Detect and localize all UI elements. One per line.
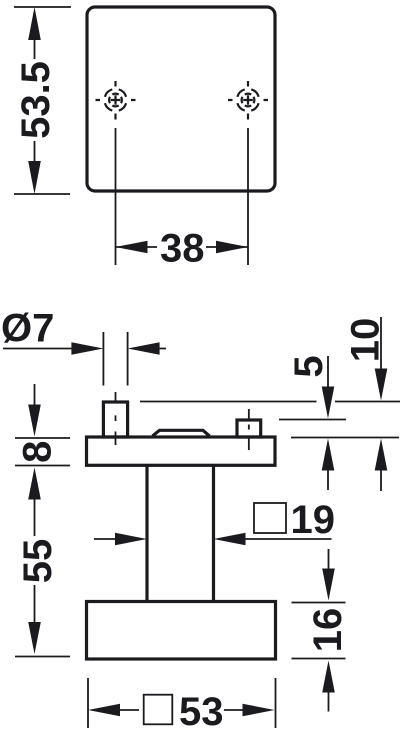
dimension 8 arrow down: [28, 405, 41, 437]
dimension 53 arrow pointing right: [243, 704, 275, 717]
dimension 19 arrow pointing left: [214, 533, 246, 546]
dimension 5 arrow up: [322, 439, 335, 471]
dimension 16 upper line: [328, 549, 330, 570]
dimension 16 arrow down: [322, 569, 335, 601]
dimension 53 left line: [119, 709, 139, 711]
dimension 53.5 extension line top: [14, 6, 71, 8]
svg-text:38: 38: [160, 226, 205, 270]
dimension 38 line segments: [116, 246, 249, 248]
dimension 53.5 extension line bottom: [14, 193, 70, 195]
svg-text:16: 16: [306, 608, 350, 653]
dimension 19 square symbol: [254, 503, 286, 533]
extension line C (flange top): [291, 437, 399, 439]
dimension 53.5 line segments: [34, 39, 36, 162]
flange plate (side view): [87, 437, 276, 465]
svg-text:5: 5: [287, 355, 331, 377]
dimension 53.5 arrow up: [28, 7, 41, 40]
dimension 38 arrow left: [116, 241, 148, 254]
dimension 55 arrow down: [28, 622, 41, 654]
dimension 19 arrow pointing right: [115, 533, 147, 546]
dimension 16 extension line top: [292, 602, 346, 604]
stud S2 (5 mm): [237, 409, 261, 450]
extension line A (top of stud S1): [140, 401, 400, 403]
dimension 5 lower line: [327, 469, 329, 490]
dimension 8 extension line bottom: [15, 465, 70, 467]
dimension d7 arrow pointing right: [71, 342, 103, 355]
svg-text:19: 19: [291, 498, 336, 542]
dimension 10 arrow up: [375, 439, 388, 471]
hole symbol H2: [228, 81, 268, 120]
svg-text:53: 53: [179, 690, 224, 730]
dimension 55 extension line bottom: [15, 656, 70, 658]
plate outline (top view rounded square): [87, 7, 275, 191]
dimension 38 extension line right: [247, 128, 249, 265]
dimension d7 arrow pointing left: [128, 342, 160, 355]
dimension 5 upper line: [327, 356, 329, 388]
dimension 53 arrow pointing left: [88, 704, 120, 717]
dimension 19 right line: [244, 538, 332, 540]
dimension 53 right line: [224, 709, 244, 711]
dimension d7 line segments: [3, 348, 166, 350]
dimension 38 extension line left: [115, 128, 117, 265]
dimension 10 lower line: [380, 469, 382, 491]
dimension 38 arrow right: [216, 241, 248, 254]
dimension 55 lower line: [34, 585, 36, 624]
stem right edge: [212, 465, 215, 601]
dimension 8 extension line top: [15, 437, 70, 439]
dimension 8 upper line: [34, 384, 36, 406]
dimension 16 lower line: [328, 691, 330, 712]
svg-text:8: 8: [16, 441, 60, 463]
dimension d7 extension line left: [102, 332, 104, 386]
stud S1 (10 mm): [103, 392, 127, 445]
dimension 53 extension line left: [87, 678, 89, 728]
dimension 16 extension line bottom: [292, 658, 346, 660]
dimension 53 extension line right: [275, 678, 277, 728]
extension line B (top of stud S2): [279, 419, 346, 421]
stem left edge: [145, 465, 148, 601]
dimension 19 left line: [94, 538, 116, 540]
svg-text:55: 55: [16, 539, 60, 584]
hole symbol H1: [96, 81, 136, 120]
dimension 53 square symbol: [144, 695, 173, 725]
dimension 5 arrow down: [322, 387, 335, 419]
svg-text:53.5: 53.5: [14, 61, 58, 139]
dimension d7 extension line right: [127, 332, 129, 386]
centre boss: [153, 430, 210, 436]
base block: [87, 602, 276, 660]
dimension 16 arrow up: [322, 661, 335, 693]
dimension 55 upper line: [34, 498, 36, 536]
dimension 10 arrow down: [375, 369, 388, 401]
dimension 53.5 arrow down: [28, 161, 41, 194]
svg-text:Ø7: Ø7: [1, 307, 54, 351]
dimension 10 upper line: [380, 317, 382, 370]
shared arrow up (8 bottom / 55 top): [28, 468, 41, 500]
